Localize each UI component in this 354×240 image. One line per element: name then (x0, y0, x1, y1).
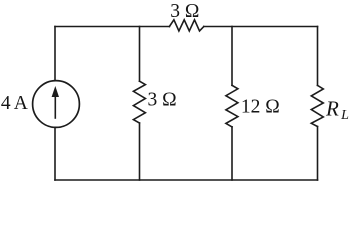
wire branch B bottom (139, 123, 141, 180)
svg-text:3 Ω: 3 Ω (170, 1, 199, 22)
wire left bottom (current source to bottom rail) (54, 128, 56, 181)
svg-text:RL: RL (325, 97, 349, 124)
wire left top (to current source) (54, 27, 56, 81)
current source I1 circle (33, 81, 80, 128)
wire right branch bottom (317, 127, 319, 181)
resistor 3 ohm vertical (branch B) (133, 81, 145, 123)
wire branch B top (139, 27, 141, 82)
current source arrow shaft (54, 95, 56, 118)
resistor 12 ohm vertical (branch C) (226, 85, 238, 127)
svg-text:3 Ω: 3 Ω (148, 90, 177, 111)
wire branch C top (231, 27, 233, 86)
current source arrowhead (52, 86, 59, 97)
svg-text:12 Ω: 12 Ω (241, 97, 280, 118)
wire branch C bottom (231, 127, 233, 180)
resistor 3 ohm horizontal (top) (169, 20, 203, 31)
wire top-left (node A to resistor) (55, 26, 169, 28)
wire top-right (resistor to node C) (204, 26, 318, 28)
wire right branch top (317, 27, 319, 86)
svg-text:4 A: 4 A (1, 93, 28, 114)
resistor RL vertical (right branch) (311, 85, 323, 126)
bottom rail wire (55, 179, 318, 181)
